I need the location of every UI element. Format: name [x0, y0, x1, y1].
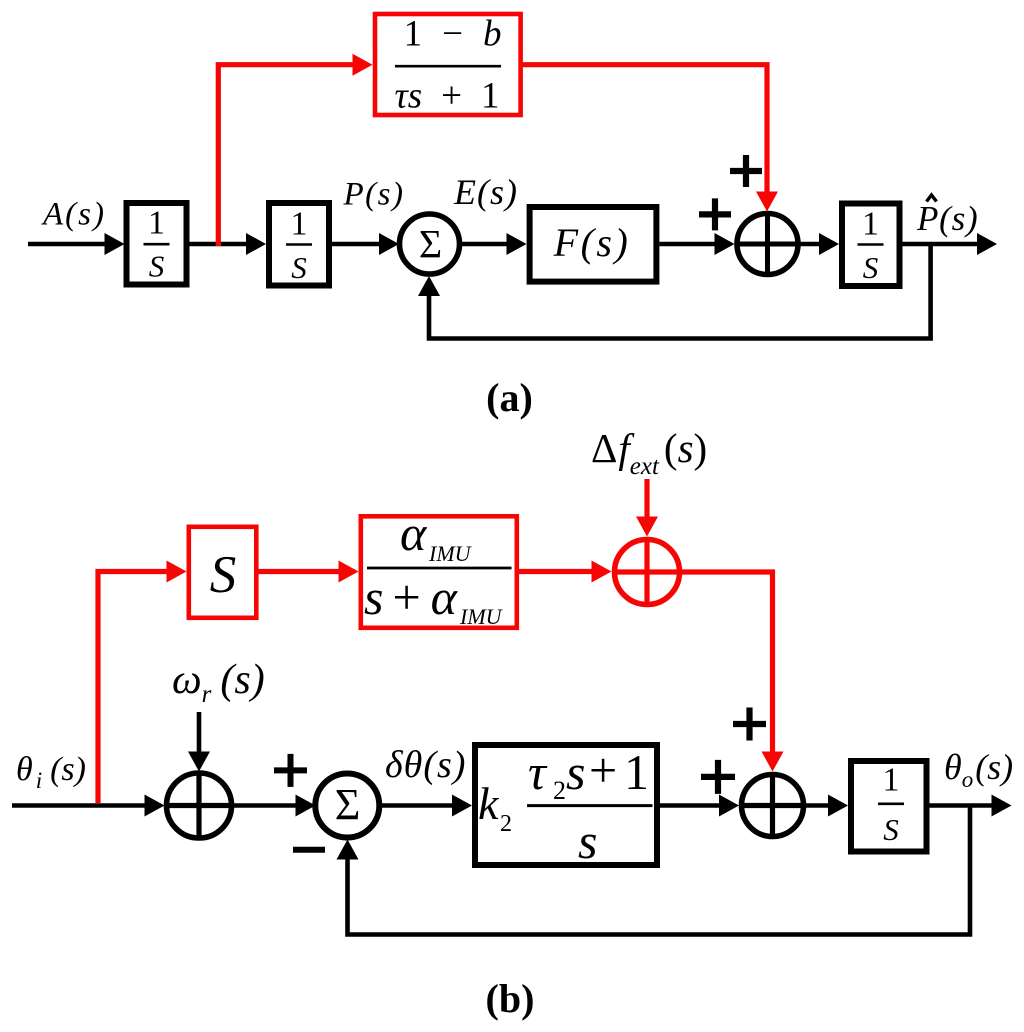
wire S1 to F(s) — [460, 242, 511, 247]
red wire red adder to black adder B2 — [680, 572, 773, 755]
svg-text:1: 1 — [148, 205, 165, 242]
red wire feedforward to adder S2 — [521, 65, 767, 195]
arrowhead into adder S2 — [715, 233, 735, 255]
svg-text:1−b: 1−b — [404, 14, 502, 55]
svg-text:k: k — [478, 778, 500, 829]
svg-text:1: 1 — [883, 762, 900, 799]
label P-hat(s) — [916, 195, 979, 238]
svg-text:S: S — [883, 812, 899, 847]
output wire theta_o(s) — [930, 803, 996, 808]
svg-text:2: 2 — [500, 811, 512, 837]
plus sign left of adder B2 — [701, 760, 735, 794]
summing junction S1 sigma — [400, 214, 460, 274]
red arrowhead into adder S2 top — [756, 192, 778, 212]
minus sign below-left of sum — [293, 847, 325, 853]
summing junction B sigma — [315, 774, 379, 838]
svg-text:IMU: IMU — [428, 541, 473, 566]
plus sign left of adder S2 — [699, 198, 731, 230]
block 1/S (b) — [851, 761, 927, 852]
feedback wire (a) — [429, 244, 931, 339]
svg-text:s: s — [578, 813, 597, 869]
red wire S to alpha block — [259, 569, 341, 574]
output wire P-hat(s) — [903, 242, 981, 247]
red block alpha_IMU/(s+alpha_IMU) — [361, 505, 517, 629]
arrowhead into S1 bottom — [418, 276, 440, 296]
svg-text:1: 1 — [291, 206, 308, 243]
block k2 (tau2 s+1)/s — [475, 742, 657, 869]
svg-text:A(s): A(s) — [41, 197, 106, 233]
svg-text:(a): (a) — [486, 375, 533, 420]
arrowhead into F(s) — [507, 233, 527, 255]
red arrowhead into red adder — [592, 561, 612, 583]
block U2 1/S — [269, 203, 329, 286]
plus sign above wire into sum — [274, 754, 307, 787]
arrowhead into integrator U1 — [105, 233, 125, 255]
svg-text:IMU: IMU — [459, 604, 504, 629]
wire input theta_i — [12, 803, 148, 808]
adder B2 circle-plus — [742, 775, 804, 837]
wire adder B2 to integrator (b) — [804, 803, 832, 808]
adder B1 circle-plus — [167, 773, 232, 838]
wire input A(s) — [28, 242, 107, 247]
svg-text:s+α: s+α — [364, 569, 459, 625]
wire U2 to sum S1 — [332, 242, 382, 247]
arrowhead output (a) — [977, 233, 997, 255]
svg-text:F(s): F(s) — [553, 220, 631, 265]
svg-text:(b): (b) — [486, 976, 535, 1021]
red wire tap to S block — [98, 572, 169, 804]
plus sign above adder S2 — [730, 155, 762, 187]
wire adder B1 to sum B-sigma — [232, 803, 300, 808]
red adder circle-plus — [615, 540, 680, 605]
wire U1 to U2 — [190, 242, 251, 247]
svg-text:1: 1 — [862, 206, 879, 243]
arrowhead into adder B1 — [188, 752, 210, 772]
arrow omega_r into adder B1 top — [197, 712, 202, 755]
wire k2 to adder B2 — [660, 803, 722, 808]
adder S2 circle-plus — [737, 214, 798, 275]
red wire tap up to feedforward block — [218, 65, 354, 246]
arrowhead into adder B2 — [719, 795, 739, 817]
svg-text:+: + — [589, 742, 617, 798]
svg-text:δθ(s): δθ(s) — [385, 744, 466, 786]
block U1 1/S — [127, 203, 187, 285]
arrowhead into k2 block — [452, 795, 472, 817]
plus sign above adder B2 — [733, 708, 766, 741]
svg-text:τ: τ — [528, 744, 548, 800]
svg-text:θi(s): θi(s) — [16, 751, 86, 793]
svg-text:1: 1 — [624, 744, 649, 800]
red block (1-b)/(ts+1) — [375, 14, 521, 117]
red block S — [189, 527, 256, 618]
red arrowhead into adder B2 top — [762, 752, 784, 772]
svg-text:s: s — [566, 744, 585, 800]
arrowhead into U3 — [819, 233, 839, 255]
svg-text:S: S — [149, 249, 165, 284]
arrowhead into integrator (b) — [828, 795, 848, 817]
svg-text:S: S — [863, 250, 879, 285]
svg-text:2: 2 — [553, 776, 566, 805]
arrowhead into adder B1 — [145, 795, 165, 817]
wire sum to k2 block — [379, 803, 455, 808]
svg-text:S: S — [210, 546, 237, 604]
arrowhead into sum bottom (b) — [337, 840, 359, 860]
red arrowhead into alpha block — [339, 561, 359, 583]
svg-text:P(s): P(s) — [343, 177, 405, 213]
svg-text:θo(s): θo(s) — [944, 747, 1013, 792]
svg-text:τs+1: τs+1 — [394, 76, 499, 117]
block F(s) — [530, 207, 657, 282]
red arrowhead into S block — [167, 561, 187, 583]
wire S2 to U3 — [798, 242, 823, 247]
red arrowhead into feedforward block — [353, 54, 373, 76]
arrowhead into sum S1 — [379, 233, 399, 255]
svg-text:Σ: Σ — [419, 222, 442, 267]
svg-text:S: S — [291, 250, 307, 285]
svg-text:P(s): P(s) — [916, 199, 979, 238]
svg-text:E(s): E(s) — [453, 172, 518, 212]
arrowhead output (b) — [992, 795, 1012, 817]
block U3 1/S — [842, 204, 900, 287]
svg-text:α: α — [400, 505, 428, 561]
svg-text:Σ: Σ — [335, 780, 361, 829]
wire F(s) to adder S2 — [659, 242, 718, 247]
arrowhead into integrator U2 — [246, 233, 266, 255]
arrowhead into sum — [296, 795, 316, 817]
feedback wire (b) — [348, 806, 971, 935]
red arrow Delta f into red adder top — [644, 479, 649, 520]
red wire alpha block to red adder — [519, 569, 594, 574]
red arrowhead into red adder — [636, 517, 658, 537]
